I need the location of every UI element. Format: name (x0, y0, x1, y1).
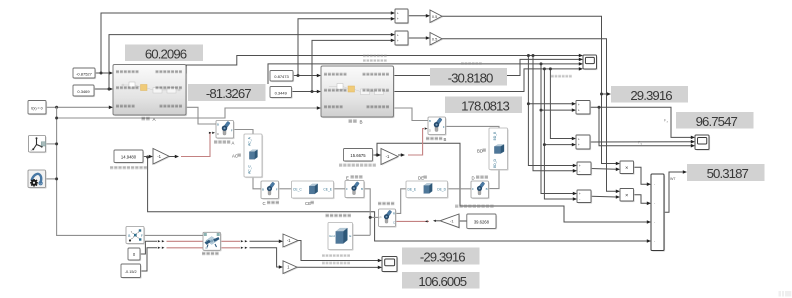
svg-text:+: + (397, 34, 399, 38)
product P1 (620, 161, 635, 175)
svg-text:+: + (578, 143, 580, 147)
svg-text:0.5: 0.5 (432, 14, 437, 19)
subsystem A port label frame (116, 105, 135, 108)
svg-text:f(x) = 0: f(x) = 0 (31, 106, 42, 110)
CE rod block (link) (292, 181, 335, 199)
svg-text:F: F (472, 187, 474, 191)
wire PS torque to joint motor A (181, 133, 211, 157)
junction on B x wire (297, 74, 300, 77)
svg-text:BD_B: BD_B (493, 131, 497, 140)
gain -1 (joint motor A torque) (153, 149, 170, 166)
svg-text:+: + (579, 164, 581, 168)
svg-text:-: - (579, 169, 580, 173)
label hub motor output torque (455, 205, 494, 208)
wire joint motor B F to BD rod top (446, 126, 500, 129)
svg-text:AC_C: AC_C (248, 164, 252, 173)
label joint motor B output torque (339, 164, 376, 167)
D bearing block (471, 181, 490, 199)
gain 0.5 a (430, 10, 443, 24)
svg-text:·: · (654, 239, 655, 244)
wire AC rod bottom to C bearing (253, 177, 261, 189)
svg-text:B: B (217, 122, 219, 126)
junction torque B (376, 154, 379, 157)
label E bearing (346, 175, 349, 180)
wire constant -0.15/2 to PS converter (141, 248, 158, 271)
sum S1 (x average) (395, 9, 409, 24)
wire branch x-A up to sum S1 in1 (101, 13, 392, 73)
svg-text:0.5: 0.5 (432, 36, 437, 41)
svg-text:+: + (397, 39, 399, 43)
svg-text:+: + (578, 138, 580, 142)
wire wheel speed E to leg (353, 234, 371, 236)
label subsystem A name (142, 117, 150, 121)
svg-text:·: · (654, 220, 655, 225)
svg-text:F: F (346, 187, 348, 191)
sum S4 (577, 190, 592, 204)
wire Fx branch to scope2 in3 (599, 107, 692, 145)
wire label Fy (638, 141, 643, 146)
wire gain -1 to scope3 in1 (298, 241, 379, 261)
constant 0.3469 (73, 85, 95, 97)
wire 6dof joint F to hub B (144, 234, 203, 236)
wire gain A-1 output (169, 156, 176, 158)
label CE rod (305, 201, 311, 206)
wire label A lateral force (363, 55, 387, 58)
svg-text:0.87473: 0.87473 (274, 74, 289, 79)
svg-text:+: + (578, 103, 580, 107)
svg-text:C: C (206, 240, 208, 244)
wire C bearing to CE rod (279, 188, 292, 190)
svg-text:WT: WT (670, 177, 676, 181)
label joint motor A output torque (110, 166, 147, 169)
hub motor block (lungu dianji) (379, 209, 397, 228)
svg-text:w: w (31, 149, 33, 152)
product P2 (620, 189, 635, 203)
svg-text:CE_E: CE_E (323, 188, 332, 192)
gain 1 (support force) (283, 261, 298, 275)
svg-text:DE: DE (418, 176, 424, 181)
wire DE rod E to hub motor R (396, 189, 406, 214)
gain 0.5 b (430, 33, 443, 47)
svg-text:DE_E: DE_E (408, 187, 417, 191)
constant -0.15/2 (121, 264, 142, 279)
wire gain B-1 output (398, 154, 402, 156)
wire mechanism config to bus (46, 178, 57, 180)
svg-text:+: + (579, 192, 581, 196)
svg-text:-81.3267: -81.3267 (206, 86, 251, 101)
wire hub sensor1 PS out (221, 240, 241, 242)
svg-text:-1: -1 (287, 238, 291, 243)
wire label lateral force (551, 75, 572, 78)
subsystem B port label in1 (324, 73, 347, 76)
wheel speed calculation block (328, 223, 354, 251)
wire constant 0.87473 to subsystem B in1 (293, 75, 318, 77)
display -29.3916 (402, 248, 480, 265)
svg-text:14.9480: 14.9480 (121, 154, 137, 159)
svg-text:96.7547: 96.7547 (696, 114, 738, 129)
wire product P1 to mux in1 (634, 167, 648, 184)
junction bus world frame (55, 142, 58, 145)
label joint motor A (214, 140, 230, 143)
constant 15.6675 (344, 149, 374, 163)
wire torque A branch to mux in4 (148, 157, 648, 241)
wire B lateral force to scope in2 (394, 59, 580, 75)
wire label Fx (664, 118, 669, 123)
svg-text:B: B (429, 119, 431, 123)
svg-text:E: E (346, 175, 349, 180)
svg-text:DE_D: DE_D (437, 187, 446, 191)
svg-text:·: · (654, 182, 655, 187)
wire PS to hub C1 (167, 240, 204, 242)
wire sum S2 to gain 0.5b (408, 37, 427, 39)
svg-text:D: D (472, 176, 475, 181)
wire sum Fy output to scope2 in2 (590, 141, 692, 143)
svg-text:F: F (276, 187, 278, 191)
wire E bearing down leg (364, 189, 370, 236)
label hub support (202, 252, 219, 255)
wire to hub motor port P (370, 216, 378, 218)
wire gain W-1 output leftward (436, 220, 440, 222)
wire DE rod to D bearing (448, 188, 471, 190)
svg-text:-0.87527: -0.87527 (76, 71, 93, 76)
subsystem B port label body (367, 105, 390, 108)
joint motor A block (216, 121, 235, 140)
faint UI badge bottom-right corner (779, 291, 792, 297)
wire constant 15.6675 to gain B-1 (373, 154, 378, 156)
wire B body to joint motor B port B (394, 108, 428, 121)
svg-text:B: B (486, 187, 488, 191)
solver configuration f(x)=0 (28, 101, 47, 116)
mux WT (4 inputs) (651, 174, 665, 252)
BD rod block (vertical link) (489, 128, 509, 171)
junction hub motor P (369, 216, 372, 219)
display 178.0813 (445, 97, 522, 114)
hub support block (zhicheng lungu) (203, 232, 222, 251)
sum S2 (y average) (395, 31, 409, 46)
svg-text:-1: -1 (157, 154, 161, 159)
6-DOF joint block (126, 227, 145, 245)
svg-text:B: B (444, 137, 447, 142)
display 106.6005 (402, 272, 480, 289)
label subsystem B name (349, 119, 357, 123)
sum Fx (576, 101, 591, 116)
wire sum S1 to gain 0.5a (408, 15, 427, 17)
wire torque B branch to mux in3 (377, 143, 648, 222)
wire branch x-B up to sum S1 in2 (298, 19, 392, 76)
subsystem A port label out1 (156, 70, 182, 73)
wire hub sensor2 PS out (221, 247, 241, 249)
svg-text:B: B (128, 234, 130, 238)
subsystem A port label out2 (156, 86, 182, 89)
display -30.8180 (430, 68, 507, 86)
constant 0 (128, 248, 141, 261)
junction on B y wire (311, 90, 314, 93)
subsystem A port label in2 (116, 86, 139, 89)
wire label ground friction force (322, 254, 350, 257)
C bearing block (261, 181, 280, 200)
svg-text:178.0813: 178.0813 (461, 98, 509, 113)
label BD rod (477, 149, 483, 154)
gain -1 (joint motor B torque) (381, 149, 399, 166)
wire constant 0 to PS converter (140, 241, 157, 254)
subsystem B (steering wheel B) (321, 66, 395, 118)
constant 0.3449 (270, 87, 293, 99)
wire mux output WT to display 50.3187 (664, 172, 684, 212)
gain -1 (hub motor torque, left pointing) (440, 214, 460, 229)
subsystem A port label body (160, 105, 183, 108)
label DE rod (418, 176, 424, 181)
display 29.3916 (611, 86, 688, 103)
joint motor B block (428, 117, 447, 136)
svg-text:E: E (349, 234, 351, 238)
junction torque A (146, 156, 149, 159)
wire sum S4 to product P2 in2 (591, 195, 617, 198)
gain -1 (friction force) (283, 234, 299, 248)
wire CE rod to E bearing (334, 188, 346, 190)
display -81.3267 (188, 84, 266, 101)
svg-text:B: B (262, 187, 264, 191)
E bearing block (345, 181, 365, 199)
label C bearing (263, 201, 266, 206)
wire PS to hub C2 (167, 247, 204, 249)
world frame block (29, 136, 47, 154)
subsystem B port label out2 (363, 89, 389, 92)
svg-text:CE: CE (305, 201, 311, 206)
svg-text:29.3916: 29.3916 (630, 88, 672, 103)
wire bundle v5 to sum Fy in1 (550, 69, 572, 139)
svg-text:AC: AC (232, 154, 238, 159)
svg-text:C: C (393, 221, 395, 225)
wire B axial force to scope in4 (394, 69, 580, 92)
constant 0.87473 (270, 71, 294, 83)
wire sum Fx output to scope2 in1 (590, 107, 692, 137)
svg-text:+: + (397, 12, 399, 16)
svg-text:A: A (232, 140, 235, 145)
sum Fy (576, 135, 591, 150)
svg-text:Gnd: Gnd (329, 234, 335, 238)
svg-text:P: P (380, 216, 382, 220)
subsystem B port label frame (324, 105, 343, 108)
wire bundle v4 to sum S4 in2 (544, 69, 573, 199)
svg-text:AC_A: AC_A (248, 136, 252, 145)
svg-text:D: D (429, 128, 431, 132)
wire label A axial force (363, 59, 387, 62)
scope (4 force signals) (583, 55, 598, 70)
wire bundle v2 to sum S3 in2 (533, 56, 574, 171)
scope3 (wheel forces) (382, 257, 398, 273)
subsystem B port label in2 (324, 89, 347, 92)
svg-text:C: C (206, 246, 208, 250)
wire branch y-A up to sum S2 in1 (109, 35, 392, 89)
svg-text:50.3187: 50.3187 (707, 166, 749, 181)
mechanism configuration block (28, 170, 47, 189)
wire to gain 1 bottom (250, 248, 280, 267)
wire gain 1 to scope3 in2 (297, 266, 379, 268)
wire constant 14.9480 to gain A-1 (143, 156, 150, 158)
svg-text:CE_C: CE_C (293, 188, 302, 192)
svg-text:-: - (579, 197, 580, 201)
wire A lateral force to scope in1 (185, 56, 580, 74)
display 60.2096 (125, 45, 203, 62)
sum S3 (577, 162, 592, 176)
svg-text:0.3469: 0.3469 (77, 89, 90, 94)
wire constant 0.3449 to subsystem B in2 (292, 91, 318, 93)
wire branch y-B up to sum S2 in2 (312, 40, 392, 91)
svg-text:×: × (625, 193, 628, 199)
svg-text:BD: BD (477, 149, 483, 154)
wire to gain -1 bottom (250, 240, 280, 242)
label AC rod (232, 154, 238, 159)
wire world frame to bus (46, 143, 57, 145)
svg-text:-30.8180: -30.8180 (448, 70, 493, 85)
wire BD rod bottom to D bearing (489, 170, 499, 189)
wire gain 0.5a output to product P1 in1 (442, 16, 617, 163)
wire A axial force to scope in3 (268, 64, 580, 84)
wire constant -0.87527 to subsystem A in1 (95, 72, 110, 74)
wire A body to joint motor A port B (186, 107, 216, 124)
wire sum S3 to product P1 in2 (591, 168, 617, 171)
junction bus branch (55, 117, 58, 120)
junction on A x wire (100, 72, 103, 75)
wire bundle v3 to sum S4 in1 (541, 64, 574, 194)
svg-text:D: D (217, 132, 219, 136)
label hub motor (378, 202, 394, 205)
subsystem A (steering wheel A) (113, 65, 187, 117)
wire constant 39.6268 to gain W-1 (459, 220, 467, 222)
wire gain 0.5b output to product P2 in1 (442, 39, 617, 192)
display 50.3187 (687, 164, 765, 181)
svg-text:·: · (654, 201, 655, 206)
label joint motor B (426, 137, 442, 140)
scope2 (Fx Fy) (695, 135, 710, 151)
svg-text:+: + (397, 17, 399, 21)
svg-text:F: F (231, 128, 233, 132)
svg-text:106.6005: 106.6005 (418, 274, 466, 289)
svg-text:C: C (263, 201, 266, 206)
AC rod block (vertical link) (244, 134, 263, 178)
wire bundle v4 branch to sum Fy in2 (544, 144, 572, 146)
svg-text:F: F (443, 125, 445, 129)
wire PS torque to joint motor B (408, 129, 424, 155)
wire bundle v1 branch to sum Fx in1 (528, 103, 572, 105)
constant 14.9480 (114, 150, 144, 164)
svg-text:-29.3916: -29.3916 (420, 250, 465, 265)
svg-text:15.6675: 15.6675 (350, 153, 366, 158)
wire world bus vertical to 6dof joint (57, 107, 126, 235)
svg-text:60.2096: 60.2096 (145, 46, 187, 61)
constant -0.87527 (73, 68, 96, 79)
label WT at mux output (670, 177, 676, 181)
wire label axial force (461, 62, 482, 65)
wire solver to world bus to subsystem A frame port (46, 106, 110, 108)
wire constant 0.3469 to subsystem A in2 (94, 88, 110, 90)
label D bearing (472, 176, 475, 181)
label wheel speed calc (326, 214, 351, 217)
svg-text:+: + (578, 108, 580, 112)
svg-text:×: × (625, 165, 628, 171)
svg-text:B: B (361, 187, 363, 191)
junction on A y wire (108, 88, 111, 91)
svg-text:BD_D: BD_D (493, 158, 497, 167)
svg-text:B: B (360, 120, 363, 125)
subsystem A port label in1 (116, 70, 139, 73)
junction bus mechanism config (55, 177, 58, 180)
wire joint motor A F to AC rod top (234, 130, 254, 135)
display 96.7547 (676, 112, 754, 129)
svg-text:39.6268: 39.6268 (474, 220, 490, 225)
wire bus branch to subsystem B frame port (57, 108, 318, 118)
svg-text:0.3449: 0.3449 (275, 90, 288, 95)
DE rod block (link) (406, 181, 449, 199)
wire label motor support force (322, 262, 350, 265)
subsystem B port label out1 (363, 73, 389, 76)
wire bundle v1 to sum S3 in1 (528, 56, 573, 166)
wire product P2 to mux in2 (634, 195, 648, 204)
svg-text:-1: -1 (386, 154, 390, 159)
constant 39.6268 (467, 214, 497, 230)
wire stub to display 29.3916 (602, 93, 608, 95)
junction bus top (55, 106, 58, 109)
wire PS torque to hub motor (396, 220, 430, 222)
wire bundle v3 branch to sum Fx in2 (541, 109, 573, 111)
svg-text:-0.15/2: -0.15/2 (125, 270, 137, 274)
svg-text:F: F (141, 234, 143, 238)
